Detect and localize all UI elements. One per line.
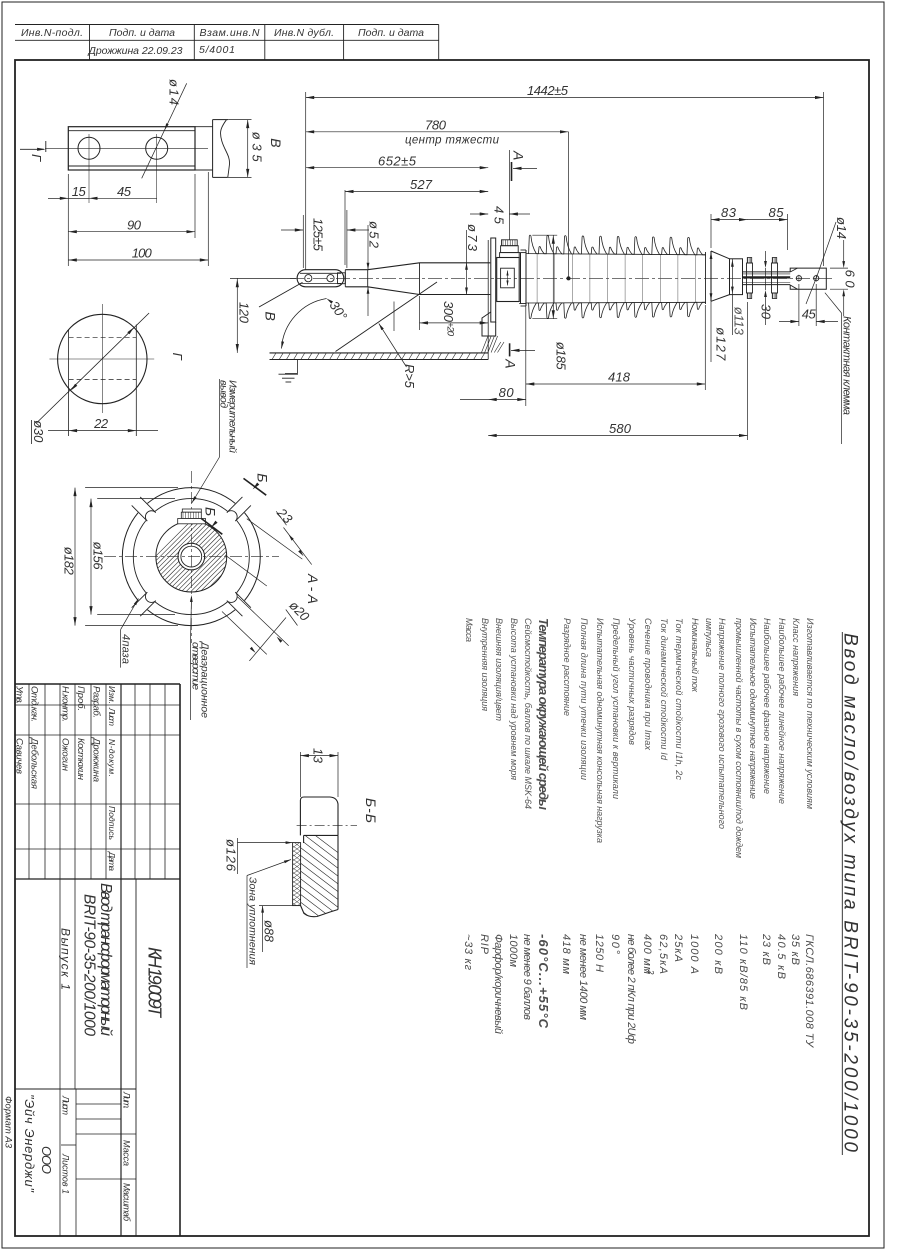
svg-text:Лит.: Лит. [122,1091,132,1109]
svg-text:Дебольская: Дебольская [29,737,40,789]
svg-text:ø14: ø14 [834,217,849,239]
svg-text:отверстие: отверстие [190,642,202,690]
svg-text:Савичев: Савичев [14,738,25,774]
section A-A cut marks [511,162,513,181]
svg-text:5/4001: 5/4001 [199,44,235,56]
svg-text:120: 120 [237,302,252,324]
ground symbol [297,360,299,374]
svg-text:Формат А3: Формат А3 [3,1096,14,1149]
svg-text:Костюхин: Костюхин [75,738,86,781]
A-A measuring tap bolt [182,509,201,512]
svg-text:110 кВ/85 кВ: 110 кВ/85 кВ [737,934,749,1010]
dim 527 [344,190,346,265]
svg-text:200 кВ: 200 кВ [712,933,724,974]
terminal flat pad [790,268,826,289]
svg-text:23 кВ: 23 кВ [760,933,772,965]
svg-text:4паза: 4паза [120,634,132,664]
svg-text:Испытательная одноминутная кон: Испытательная одноминутная консольная на… [595,618,605,843]
svg-text:А-А: А-А [305,573,321,604]
svg-text:Утв.: Утв. [14,685,25,704]
svg-text:45: 45 [117,184,132,199]
svg-text:90: 90 [127,217,142,232]
svg-text:Сейсмостойкость, баллов по шка: Сейсмостойкость, баллов по шкале MSK-64 [523,618,533,809]
svg-text:Лист: Лист [61,1095,71,1116]
30 deg arc [282,299,327,349]
R>5 leader [393,302,395,332]
svg-text:Фарфор/коричневый: Фарфор/коричневый [492,934,504,1034]
svg-text:418: 418 [608,369,631,384]
svg-text:15: 15 [72,184,87,199]
svg-text:Б: Б [203,507,219,516]
wall hatch under plate [482,336,489,353]
svg-text:418 мм: 418 мм [560,934,572,974]
dim d35 [228,119,251,121]
svg-text:Уровень частичных разрядов: Уровень частичных разрядов [627,617,637,745]
svg-text:62,5кА: 62,5кА [657,934,669,974]
dim 23 slot diagonal [247,519,302,559]
svg-text:не менее 1400 мм: не менее 1400 мм [577,934,589,1020]
svg-text:Подп. и дата: Подп. и дата [358,27,424,39]
svg-text:30: 30 [759,304,774,320]
svg-text:45: 45 [802,307,817,322]
svg-text:400 мм: 400 мм [641,934,653,974]
svg-text:Наибольшее рабочее линейное на: Наибольшее рабочее линейное напряжение [777,618,787,804]
section B-B cut stroke lower [201,519,222,535]
svg-text:Номинальный ток: Номинальный ток [690,618,700,693]
dim 300+20 [419,296,421,330]
title block outer [15,683,180,685]
svg-text:центр тяжести: центр тяжести [405,135,500,147]
svg-text:Сечение проводника при Imax: Сечение проводника при Imax [643,618,653,751]
svg-text:45: 45 [492,206,507,225]
clamp 1 [747,263,753,293]
pad hole 1 [796,276,801,281]
svg-text:ø113: ø113 [732,307,747,336]
view arrow B lug [259,282,303,307]
svg-text:60: 60 [843,270,858,289]
svg-text:Напряжение полного грозового и: Напряжение полного грозового испытательн… [717,618,727,829]
svg-text:В: В [263,312,279,321]
dim 580 [747,302,749,440]
svg-text:ООО: ООО [39,1146,54,1174]
svg-text:Ввод трансформаторный: Ввод трансформаторный [97,883,114,1036]
plate hole 1 [78,137,100,159]
svg-text:ø156: ø156 [91,542,106,571]
svg-text:Отд.кач.: Отд.кач. [29,686,40,722]
dim 45 plate [48,197,157,199]
dim d126 [237,838,239,874]
svg-text:Проб.: Проб. [75,686,86,711]
center of gravity mark [568,132,570,279]
svg-text:Изготавливается по техническим: Изготавливается по техническим условиям [805,618,815,809]
title block left table verticals [28,684,30,879]
svg-text:100: 100 [132,246,153,261]
svg-text:Внешняя изоляция/цвет: Внешняя изоляция/цвет [494,618,504,722]
svg-text:Температура окружающей среды: Температура окружающей среды [536,618,551,810]
svg-text:35 кВ: 35 кВ [789,934,801,965]
svg-text:ø35: ø35 [250,132,265,163]
svg-text:1442±5: 1442±5 [527,83,569,98]
svg-text:Дрожжина 22.09.23: Дрожжина 22.09.23 [88,45,183,57]
svg-text:1000 А: 1000 А [688,934,700,974]
dim 45 flange tap [508,150,510,240]
dim 780 centre of gravity [306,131,569,133]
title block left table horizontals [15,704,180,706]
svg-text:импульса: импульса [704,618,714,657]
lug oval terminal [297,270,344,287]
cone section [368,263,420,270]
svg-text:Ток термической стойкости I1h,: Ток термической стойкости I1h, 2с [674,618,684,781]
dim 45 pad holes [798,284,800,326]
pad hole 2 [814,276,819,281]
svg-text:Изм.: Изм. [107,686,117,704]
lug boss [338,273,346,284]
svg-text:промышленной частоты в сухом с: промышленной частоты в сухом состоянии/п… [734,618,744,858]
dim 30 clamp [765,251,767,262]
top margin table [15,24,439,26]
clamp 2 [772,263,778,293]
svg-text:Подп. и дата: Подп. и дата [109,27,175,39]
view G circle [58,314,147,403]
svg-text:580: 580 [609,421,632,436]
rod d35 end with break line [212,120,214,178]
B-B hatched body [304,834,338,836]
dim 80 [525,300,527,406]
svg-text:Полная длина пути утечки изоля: Полная длина пути утечки изоляции [579,618,589,780]
svg-text:527: 527 [410,177,433,192]
dim 15 [67,174,69,266]
dim 100 [207,172,209,266]
dim 13 [299,752,301,797]
plate hole 2 [146,137,168,159]
leader d14 pad [816,222,836,278]
B-B part top section [300,797,338,835]
shed disc edges [536,254,538,303]
rod neck [195,126,213,128]
svg-text:Предельный угол установки к ве: Предельный угол установки к вертикали [611,618,621,799]
dim d30 diagonal [37,313,150,423]
name cell divider [59,879,61,1089]
section A-A centerlines [190,471,192,643]
svg-text:BRIT-90-35-200/1000: BRIT-90-35-200/1000 [81,894,98,1036]
svg-text:Дрожжина: Дрожжина [91,737,102,782]
svg-text:~33 кг: ~33 кг [462,934,474,971]
svg-text:Контактная клемма: Контактная клемма [841,316,853,415]
svg-text:Масштаб: Масштаб [122,1183,132,1222]
dim d20 slot diagonal [238,597,289,646]
cap cylinder d113 [730,259,743,295]
svg-text:ø14: ø14 [167,79,182,105]
svg-text:Б-Б: Б-Б [363,798,379,823]
svg-text:ø126: ø126 [224,839,239,872]
svg-text:1250 Н: 1250 Н [593,934,605,972]
dim 83 [710,214,712,248]
dim d73 [466,230,468,263]
svg-text:ø182: ø182 [62,547,77,576]
dim d182 [85,487,178,489]
svg-text:не менее 9 баллов: не менее 9 баллов [521,934,533,1020]
svg-text:90°: 90° [609,934,621,955]
dim 60 pad [830,267,848,269]
svg-text:КН 19.009Т: КН 19.009Т [145,947,165,1019]
dim 125 [302,215,304,268]
svg-text:"Эйч Энерджи": "Эйч Энерджи" [22,1094,37,1193]
B-B centerline [297,824,357,826]
svg-text:Ожогин: Ожогин [60,738,71,772]
svg-text:Наибольшее рабочее фазное напр: Наибольшее рабочее фазное напряжение [762,618,772,794]
dim d88 [259,905,301,907]
svg-text:Н.контр.: Н.контр. [60,686,71,722]
dim 652 [306,167,489,169]
svg-text:Высота установки над уровнем м: Высота установки над уровнем моря [509,618,519,780]
svg-text:25кА: 25кА [672,933,684,962]
svg-text:2: 2 [646,969,655,975]
svg-text:ø185: ø185 [554,342,569,371]
conductor hole circles [178,543,205,570]
svg-text:Инв.N дубл.: Инв.N дубл. [274,27,334,39]
flange body [497,258,520,302]
label kontaktnaya klemma [825,293,842,313]
svg-text:ø73: ø73 [465,224,480,252]
svg-text:Подпись: Подпись [107,806,117,840]
oil level diagonal 30deg [336,294,420,352]
svg-text:N-докум.: N-докум. [107,739,117,777]
svg-text:А: А [503,358,519,368]
four slots with end circles [227,511,237,521]
dim 418 [704,305,706,390]
svg-text:80: 80 [499,385,515,400]
svg-text:125±5: 125±5 [311,218,326,252]
measuring tap bolt stack [500,253,520,258]
B-B gasket strip cross hatch [293,843,301,906]
tank surface hatch [272,353,276,360]
svg-text:А: А [511,150,527,160]
svg-text:ГКСЛ.686391.008 ТУ: ГКСЛ.686391.008 ТУ [803,934,815,1048]
svg-text:Зона уплотнения: Зона уплотнения [247,877,259,965]
svg-text:Взам.инв.N: Взам.инв.N [200,27,260,39]
dim 22 [48,430,158,432]
svg-text:не более 2 пКл при 2Uф: не более 2 пКл при 2Uф [625,934,637,1044]
svg-text:+20: +20 [445,322,456,337]
porcelain insulator sheds [528,235,706,255]
wall plane line [487,240,489,360]
view arrow G [20,148,44,150]
svg-text:1000м: 1000м [507,934,519,967]
svg-text:Лист: Лист [107,707,117,726]
svg-text:ø52: ø52 [367,221,382,249]
svg-text:652±5: 652±5 [378,153,417,168]
section A-A flange outer ring [147,610,235,626]
svg-text:ø88: ø88 [262,920,277,943]
svg-text:Внутренняя изоляция: Внутренняя изоляция [480,618,490,711]
svg-text:ø30: ø30 [31,420,46,443]
svg-text:Дата: Дата [107,851,117,871]
mounting plate [491,238,496,322]
dim d113 arrows [731,259,733,335]
svg-text:R>5: R>5 [402,364,417,389]
svg-text:Б: Б [255,473,271,482]
porcelain root lines [526,254,706,255]
dim d185 [532,234,557,236]
stem rod [743,271,791,273]
leader d14 top view [142,83,187,178]
svg-text:13: 13 [311,748,326,764]
view G hidden lines [69,336,137,338]
dim 1442 [306,97,824,99]
tank top surface [270,352,489,354]
view B terminal plate outline [68,127,195,170]
dim d52 [367,225,369,270]
dim 85 [787,214,789,250]
left cylinder d52 [345,269,367,271]
cap cone [705,252,707,304]
svg-text:Класс напряжения: Класс напряжения [791,618,801,696]
hole centerlines [88,134,90,203]
svg-text:Г: Г [170,353,185,361]
porcelain first ring [520,253,522,304]
svg-text:ø127: ø127 [714,327,729,361]
plate centerline [45,147,208,149]
svg-text:Масса: Масса [464,618,474,642]
svg-text:780: 780 [425,118,447,133]
svg-text:Испытательное одноминутное нап: Испытательное одноминутное напряжение [748,618,758,799]
svg-text:Масса: Масса [122,1140,132,1166]
svg-text:-60°С...+55°С: -60°С...+55°С [536,934,551,1029]
svg-text:Листов 1: Листов 1 [61,1153,71,1194]
section B-B cut stroke upper [244,478,267,495]
svg-text:Г: Г [29,154,44,162]
dim d127 arrows [710,301,712,362]
svg-text:85: 85 [769,205,785,220]
dim 120 [236,278,238,353]
main centerline [290,277,832,279]
title block right section lines [15,1088,136,1090]
dim 90 [194,174,196,238]
svg-text:Инв.N-подл.: Инв.N-подл. [21,27,83,39]
dim d156 [97,498,175,500]
view G centerlines [101,304,103,413]
svg-text:Выпуск 1: Выпуск 1 [59,928,73,990]
svg-text:Разраб.: Разраб. [91,686,102,718]
section A-A inner ring d156 [155,602,227,615]
svg-text:Разрядное расстояние: Разрядное расстояние [562,618,572,716]
svg-text:В: В [268,138,284,147]
flange inner box [501,268,515,288]
tube d73 [420,262,491,264]
svg-text:RIP: RIP [478,934,490,955]
svg-text:83: 83 [721,205,737,220]
svg-text:40.5 кВ: 40.5 кВ [775,934,787,979]
svg-text:22: 22 [93,416,109,431]
svg-text:300: 300 [441,301,456,323]
view G flat chords [68,330,70,436]
svg-text:Ток динамической стойкости Id: Ток динамической стойкости Id [659,618,669,761]
